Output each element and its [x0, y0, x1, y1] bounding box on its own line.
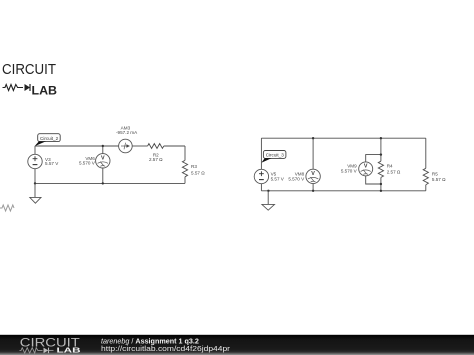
wire VM8 bottom lead — [312, 184, 314, 191]
svg-text:5.57 V: 5.57 V — [45, 161, 59, 166]
svg-text:Circuit_3: Circuit_3 — [266, 153, 285, 158]
wire bottom left circuit — [35, 182, 185, 184]
footer attribution line 1 — [101, 336, 199, 345]
ground right — [262, 191, 275, 210]
wire R4 branch upper — [380, 138, 382, 161]
wire VM6 top lead — [102, 146, 104, 154]
callout Circuit_3 — [261, 151, 286, 163]
junction VM8 top — [312, 137, 314, 139]
wire V3 top lead — [34, 146, 36, 154]
wire top right circuit — [261, 137, 425, 139]
label VM9 value — [341, 163, 358, 173]
wire bottom right circuit — [261, 190, 425, 192]
svg-text:R4: R4 — [387, 164, 393, 169]
voltmeter VM9 — [359, 162, 373, 176]
label V5 value — [271, 171, 285, 181]
svg-text:5.57 Ω: 5.57 Ω — [432, 177, 446, 182]
wire top left circuit — [35, 145, 119, 147]
junction VM9 loop top — [380, 153, 382, 155]
wire R2 to right corner — [164, 145, 185, 147]
wire right vertical upper — [184, 146, 186, 160]
svg-text:LAB: LAB — [32, 84, 58, 98]
junction VM8 bottom — [312, 190, 314, 192]
label R2 value — [149, 152, 163, 162]
wire right vertical lower — [184, 177, 186, 184]
wire VM8 top lead — [312, 138, 314, 169]
wire VM9 loop top — [366, 155, 381, 162]
wire top right segment to R2 — [132, 145, 147, 147]
callout Circuit_2 — [35, 134, 61, 147]
svg-text:5.57 Ω: 5.57 Ω — [191, 171, 205, 176]
junction ground right — [267, 190, 269, 192]
watermark fragment left edge — [0, 205, 14, 211]
label R4 value — [387, 164, 401, 175]
svg-text:-957.2 mA: -957.2 mA — [116, 130, 138, 135]
label AM3 value — [116, 125, 138, 135]
wire R5 vertical lower — [425, 185, 427, 191]
svg-text:http://circuitlab.com/cd4f26jd: http://circuitlab.com/cd4f26jdp44pr — [101, 344, 231, 353]
resistor R4 — [378, 161, 383, 177]
voltage source V5 — [254, 169, 268, 183]
svg-text:5.570 V: 5.570 V — [79, 161, 96, 166]
voltage source V3 — [28, 154, 42, 168]
svg-text:V: V — [311, 171, 315, 177]
label R3 value — [191, 164, 205, 176]
junction VM6 top — [102, 145, 104, 147]
resistor R3 — [182, 160, 187, 176]
svg-text:5.570 V: 5.570 V — [341, 169, 358, 174]
svg-text:VM9: VM9 — [347, 163, 357, 168]
svg-text:2.57 Ω: 2.57 Ω — [149, 157, 163, 162]
svg-text:LAB: LAB — [57, 346, 82, 355]
svg-text:V: V — [364, 164, 368, 170]
svg-text:5.570 V: 5.570 V — [288, 176, 305, 181]
wire VM9 loop bottom — [366, 176, 381, 184]
junction VM9 loop bottom — [380, 183, 382, 185]
resistor R5 — [423, 168, 428, 185]
wire VM6 bottom lead — [102, 168, 104, 183]
voltmeter VM8 — [306, 169, 320, 183]
label R5 value — [432, 171, 446, 182]
wire V3 bottom lead — [34, 169, 36, 184]
junction VM6 bottom — [102, 182, 104, 184]
circuits wrapper — [28, 125, 446, 210]
wire R5 vertical upper — [425, 138, 427, 168]
footer logo LAB — [57, 346, 82, 355]
svg-text:R5: R5 — [432, 171, 438, 176]
watermark logo top-left — [2, 61, 57, 98]
footer bar — [0, 335, 474, 355]
junction R4 top — [380, 137, 382, 139]
wire V5 bottom lead — [260, 184, 262, 191]
wire R4 branch lower — [380, 177, 382, 190]
svg-text:CIRCUIT: CIRCUIT — [2, 61, 56, 78]
junction R4 bottom — [380, 190, 382, 192]
footer url line 2 — [101, 344, 231, 353]
ground left — [30, 183, 41, 203]
ammeter AM3 — [119, 139, 133, 153]
svg-text:Circuit_2: Circuit_2 — [40, 136, 59, 141]
junction V3 bottom — [34, 182, 36, 184]
resistor R2 — [148, 144, 164, 149]
label VM8 value — [288, 171, 305, 181]
svg-text:V: V — [101, 155, 105, 161]
voltmeter VM6 — [96, 154, 110, 168]
svg-text:R3: R3 — [191, 164, 197, 169]
wire V5 top lead — [260, 138, 262, 169]
label V3 value — [45, 157, 59, 166]
svg-text:2.57 Ω: 2.57 Ω — [387, 169, 401, 174]
footer logo CIRCUIT — [20, 336, 81, 350]
label VM6 value — [79, 156, 96, 166]
footer logo resistor-diode — [20, 348, 54, 354]
svg-text:5.57 V: 5.57 V — [271, 176, 285, 181]
